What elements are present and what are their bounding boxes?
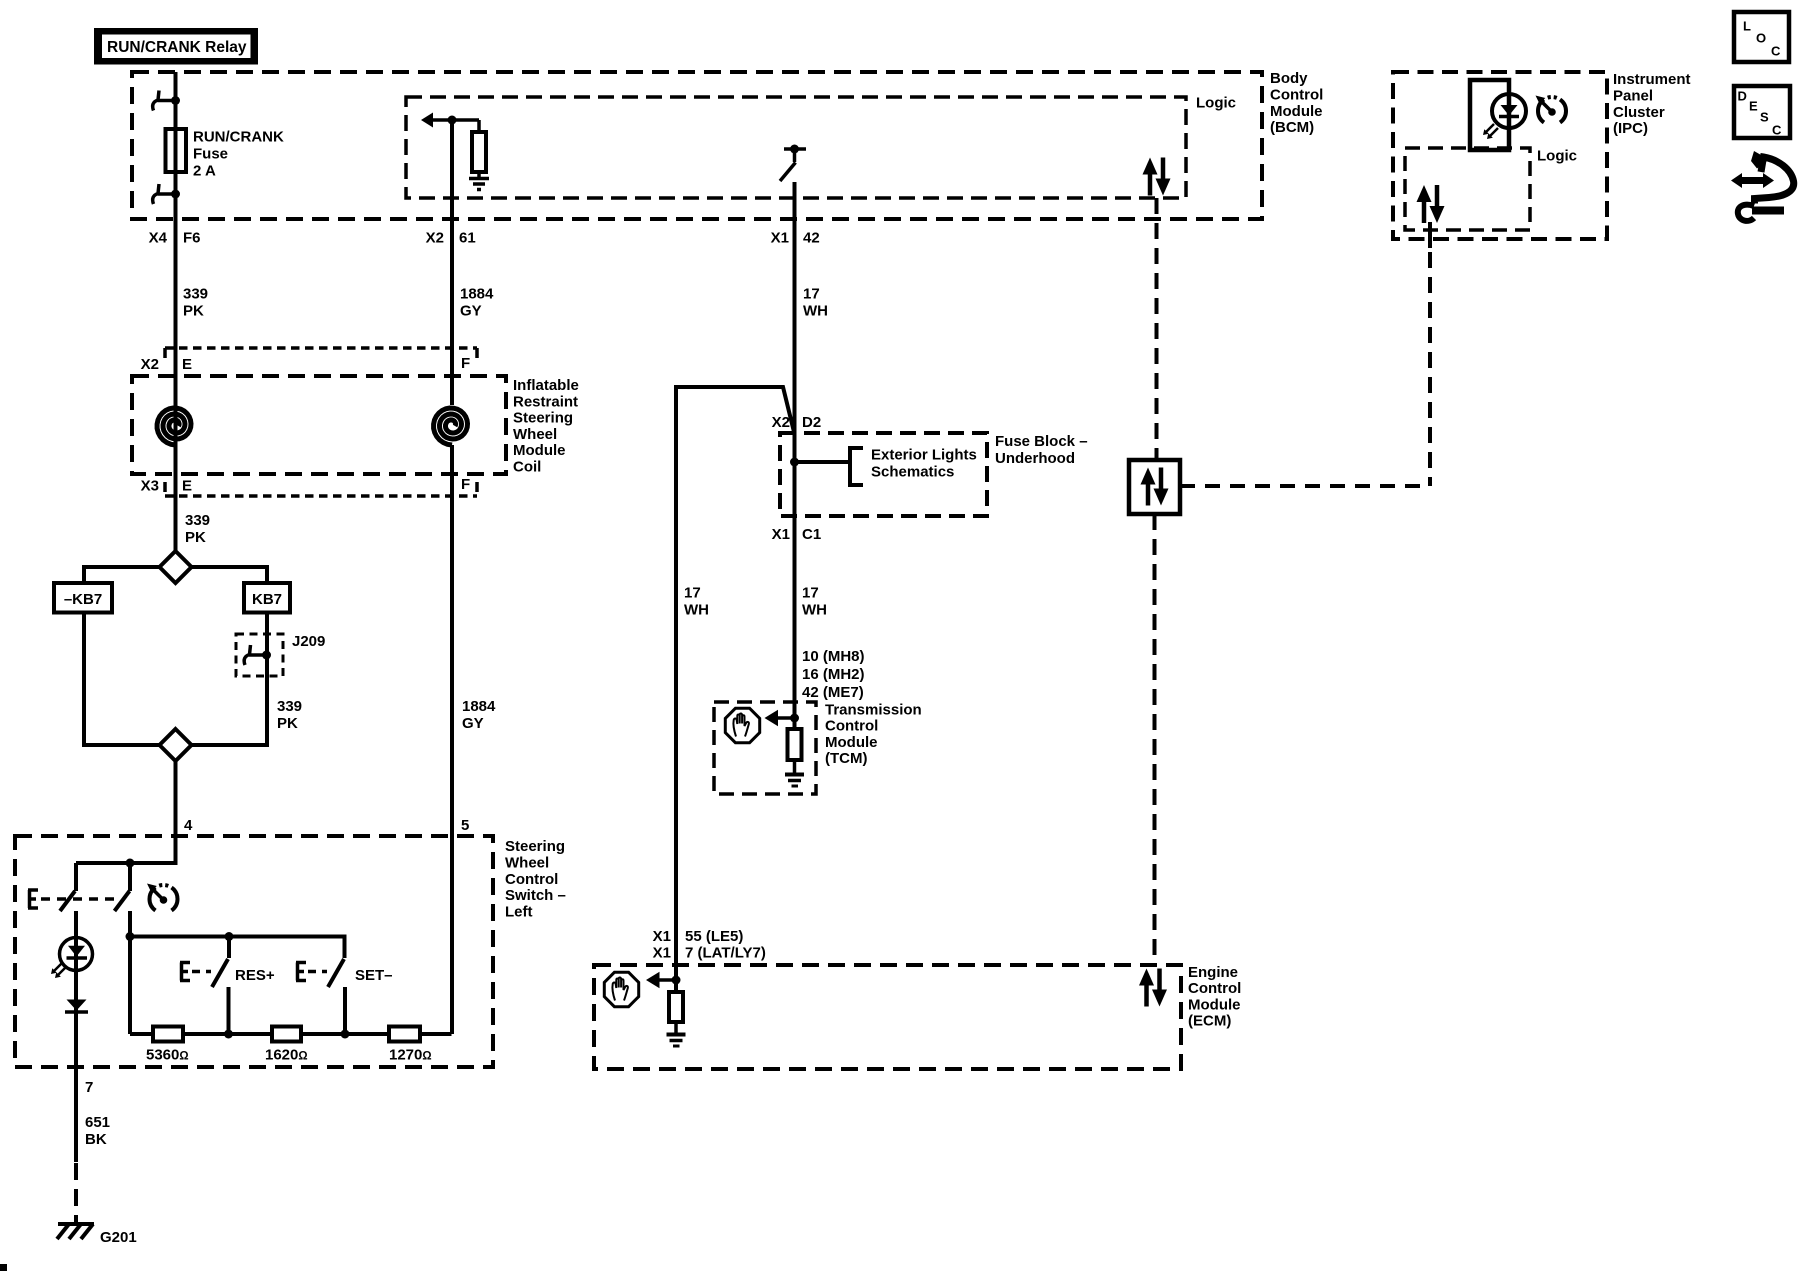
IPC LED circle [1492, 94, 1526, 128]
junction node C [225, 932, 234, 941]
dashed serial line IPC vertical [1428, 252, 1432, 486]
wire below -KB7 [84, 613, 160, 746]
svg-text:G201: G201 [100, 1229, 137, 1246]
pin label X2 D2 [772, 414, 822, 431]
svg-text:5: 5 [461, 817, 469, 834]
svg-text:F6: F6 [183, 230, 201, 247]
ECM ground [667, 1022, 686, 1046]
pin label X4 F6 [149, 230, 201, 247]
splice diamond bottom [160, 729, 192, 761]
svg-text:C: C [1771, 44, 1781, 59]
svg-text:C: C [1772, 123, 1782, 138]
TCM hand symbol [733, 714, 748, 737]
diode D2 [65, 1000, 88, 1013]
svg-text:F: F [461, 476, 470, 493]
IPC gauge icon [1536, 96, 1567, 123]
svg-text:L: L [1743, 19, 1751, 34]
mechanical link dashes SET- [308, 970, 327, 974]
off-page tap to Exterior Lights [795, 446, 864, 487]
pin label X2 61 [426, 230, 476, 247]
svg-text:E: E [182, 478, 192, 495]
svg-text:61: 61 [459, 230, 476, 247]
wire branch to ECM [676, 387, 795, 994]
svg-text:4: 4 [184, 817, 193, 834]
svg-text:E: E [1749, 99, 1758, 114]
fuse clip terminal top [153, 91, 180, 111]
svg-text:RUN/CRANK Relay: RUN/CRANK Relay [107, 39, 247, 56]
IPC indicator frame [1470, 80, 1509, 150]
switch S1 (on/off) stub [74, 863, 78, 891]
IPC serial stub wire [1428, 222, 1432, 248]
svg-text:D: D [1738, 89, 1747, 104]
wire W1 segment below coil [174, 474, 178, 551]
switch S1 E-link [28, 890, 38, 908]
wire to -KB7 [84, 567, 160, 583]
wire below S2 [128, 911, 132, 1034]
pin label X1 42 [771, 230, 820, 247]
resistor R-BCM [472, 132, 486, 172]
wire W2 tap inside BCM: arrow + resistor to ground [421, 113, 479, 133]
svg-text:42: 42 [803, 230, 820, 247]
serial data box arrows [1141, 468, 1169, 506]
splice diamond top [160, 551, 192, 583]
resistor ladder bottom wire [130, 1032, 452, 1036]
pin label X1 C1 [772, 526, 822, 543]
svg-text:–KB7: –KB7 [64, 591, 102, 608]
fuse F1 RUN/CRANK Fuse 2A [166, 129, 187, 172]
resistor R2 1620 [272, 1027, 301, 1042]
dashed serial line to IPC (horizontal) [1180, 484, 1430, 488]
mechanical link dashes RES+ [192, 970, 211, 974]
svg-text:7 (LAT/LY7): 7 (LAT/LY7) [685, 945, 766, 962]
wire W1 into switch box [174, 761, 178, 863]
splice J209 dashed box [236, 634, 283, 676]
fuse clip terminal bottom [153, 184, 180, 204]
dashed serial line down to ECM [1153, 514, 1157, 965]
ECM input arrow [646, 972, 676, 988]
svg-text:X1: X1 [653, 945, 671, 962]
BCM internal switch (logic driver) [780, 145, 806, 182]
mechanical link dashes S1-S2 [41, 897, 118, 901]
switch RES+ E-link [180, 963, 190, 981]
BCM Logic inner dashed box [406, 97, 1186, 198]
Instrument Panel Cluster (IPC) dashed box [1393, 72, 1607, 239]
resistor R1 5360 [153, 1027, 183, 1042]
junction node F [790, 458, 799, 467]
page corner mark [0, 1264, 7, 1271]
Steering Wheel Control Switch - Left dashed box [15, 836, 493, 1067]
pin labels X1 55 (LE5) / X1 7 (LAT/LY7) [653, 928, 766, 962]
svg-text:Fuse Block –Underhood: Fuse Block –Underhood [995, 433, 1088, 467]
TCM resistor [788, 729, 802, 760]
switch S2 blade [115, 891, 130, 911]
wire below S1 [74, 911, 78, 1067]
Transmission Control Module (TCM) dashed box [714, 702, 816, 794]
horizontal wire to RES/SET branches [130, 937, 345, 959]
LED D1 light arrows [51, 963, 66, 978]
svg-text:C1: C1 [802, 526, 821, 543]
RUN/CRANK Relay title box [94, 28, 258, 65]
ground G201 [57, 1224, 94, 1239]
switch RES+ blade [212, 959, 228, 987]
svg-text:Logic: Logic [1537, 148, 1577, 165]
TCM stop-hand octagon [725, 708, 759, 742]
connector X2 row (steering coil top) [141, 348, 477, 373]
junction node B [126, 932, 135, 941]
splice terminal in J209 [244, 645, 271, 665]
connector X3 row (steering coil bottom) [141, 476, 477, 496]
svg-text:D2: D2 [802, 414, 821, 431]
svg-text:O: O [1756, 31, 1766, 46]
junction node E [341, 1030, 350, 1039]
wire below KB7 [192, 613, 268, 746]
wire below RES+ [227, 987, 231, 1034]
svg-text:X1: X1 [772, 526, 790, 543]
Body Control Module (BCM) dashed box [132, 72, 1262, 219]
box KB7 [244, 583, 290, 613]
TCM ground [785, 760, 804, 786]
junction node H [672, 976, 681, 985]
svg-text:F: F [461, 355, 470, 372]
svg-text:Logic: Logic [1196, 95, 1236, 112]
svg-text:651BK: 651BK [85, 1114, 110, 1148]
serial data connector box [1129, 460, 1180, 514]
LED D1 circle [60, 938, 93, 971]
LOC reference box [1734, 12, 1789, 62]
ECM hand symbol [612, 978, 627, 1001]
junction node A [126, 859, 135, 868]
switch SET- blade [328, 959, 344, 987]
svg-text:10 (MH8)16 (MH2)42 (ME7): 10 (MH8)16 (MH2)42 (ME7) [802, 648, 865, 701]
BCM serial data arrows [1143, 158, 1171, 196]
IPC LED light arrows [1483, 124, 1498, 139]
wire below SET- [343, 987, 347, 1034]
LED D1 diode [67, 946, 88, 958]
svg-text:J209: J209 [292, 633, 325, 650]
box -KB7 [54, 583, 112, 613]
IPC Logic inner dashed box [1405, 148, 1530, 230]
wire W1: RUN/CRANK relay output 339 PK [174, 72, 178, 551]
svg-text:X1: X1 [771, 230, 789, 247]
ground (BCM internal) [469, 172, 489, 190]
IPC LED diode [1499, 105, 1519, 117]
svg-text:X2: X2 [426, 230, 444, 247]
svg-text:X3: X3 [141, 478, 159, 495]
svg-text:X1: X1 [653, 928, 671, 945]
wire W3 651 BK below box [74, 1067, 78, 1162]
DESC reference box [1734, 86, 1790, 138]
Inflatable Restraint Steering Wheel Module Coil dashed box [132, 376, 506, 474]
switch S2 (cruise set) stub [128, 863, 132, 891]
svg-text:S: S [1760, 110, 1769, 125]
svg-text:SET–: SET– [355, 967, 393, 984]
cruise speed icon [147, 884, 178, 911]
coil L1 (clockspring left) [157, 408, 191, 445]
ECM stop-hand octagon [604, 972, 638, 1006]
Fuse Block - Underhood dashed box [780, 433, 987, 516]
svg-text:55 (LE5): 55 (LE5) [685, 928, 743, 945]
wire W2 below coil [450, 445, 454, 1034]
wire top feed inside switch box [76, 836, 176, 863]
svg-text:RES+: RES+ [235, 967, 275, 984]
svg-text:X2: X2 [141, 356, 159, 373]
dashed serial data line BCM down [1155, 198, 1159, 460]
svg-text:KB7: KB7 [252, 591, 282, 608]
junction node G [790, 714, 799, 723]
svg-text:E: E [182, 356, 192, 373]
svg-text:X4: X4 [149, 230, 168, 247]
wire W2: 1884 GY [450, 120, 454, 405]
wire to KB7 [192, 567, 268, 583]
resistor R3 1270 [389, 1027, 420, 1042]
TCM input arrow [765, 710, 795, 726]
wire W4: 17 WH from BCM [793, 182, 797, 731]
ECM resistor [669, 992, 683, 1022]
IPC serial data arrows [1417, 185, 1445, 223]
Engine Control Module (ECM) dashed box [594, 965, 1181, 1069]
svg-text:7: 7 [85, 1079, 93, 1096]
switch S1 blade [60, 891, 75, 911]
coil L2 (clockspring right) [434, 408, 468, 445]
navigation double-arrow icon [1731, 151, 1794, 221]
switch RES+ stub [227, 937, 231, 959]
dashed wire to G201 [74, 1163, 78, 1226]
junction node D [224, 1030, 233, 1039]
switch SET- E-link [296, 963, 306, 981]
ECM serial data arrows [1139, 969, 1167, 1007]
svg-text:X2: X2 [772, 414, 790, 431]
